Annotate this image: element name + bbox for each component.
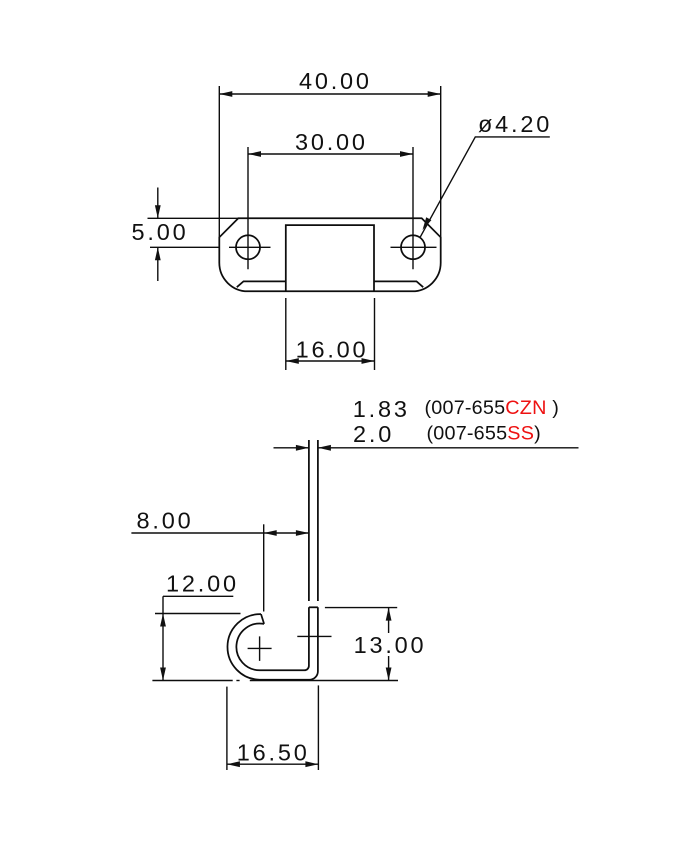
- arrow 8.00 left (points left): [264, 530, 277, 536]
- dim 16.00 extension lines: [286, 298, 375, 370]
- hook tip end cap: [261, 614, 264, 624]
- profile upper plate wall right face: [317, 440, 319, 601]
- dim 8.00 extension line: [263, 524, 265, 611]
- arrow 16.50 left: [227, 761, 240, 767]
- dim 13.00 dimension line: [388, 608, 390, 681]
- dim 8.00 dimension line: [131, 532, 309, 534]
- arrow 12.00 bottom (points down): [160, 668, 166, 681]
- arrow 40.00 right: [428, 91, 441, 97]
- right hole crosshair: [391, 147, 437, 269]
- dim 5.00 bottom extension line: [150, 246, 219, 248]
- svg-text:5.00: 5.00: [132, 219, 189, 245]
- dim 30.00 dimension line: [248, 153, 413, 155]
- arrow 5.00 bottom (points up): [155, 247, 161, 260]
- hook outer surface: leg, bend, bottom run, outer curl: [227, 607, 317, 679]
- arrow 8.00 right (points right): [296, 530, 309, 536]
- arrow 16.00 right: [362, 358, 375, 364]
- leader line for hole diameter: [420, 137, 550, 237]
- arrow 12.00 top (points up): [160, 614, 166, 627]
- arrow 16.00 left: [286, 358, 299, 364]
- arrow 16.50 right: [305, 761, 318, 767]
- hook inner surface: leg, bend, bottom run, inner curl: [236, 607, 309, 670]
- svg-text:(007-655SS): (007-655SS): [427, 423, 541, 445]
- thickness dimension line right part (leader to labels): [318, 447, 579, 449]
- arrow thickness left (points right): [296, 445, 309, 451]
- svg-text:40.00: 40.00: [299, 68, 372, 94]
- dim 12.00 dimension line: [162, 596, 164, 680]
- left hole crosshair: [229, 147, 271, 269]
- svg-text:16.00: 16.00: [296, 337, 369, 363]
- svg-text:30.00: 30.00: [295, 129, 368, 155]
- dim 16.00 dimension line: [286, 360, 375, 362]
- hook top end cap: [309, 606, 318, 608]
- plate inner bottom edge right segment: [374, 281, 423, 287]
- dim 12.00 landing line: [163, 595, 233, 597]
- white gap behind 13.00 text: [351, 633, 424, 656]
- plate inner bottom edge left segment: [237, 281, 286, 287]
- dim 40.00 extension lines: [219, 86, 440, 263]
- svg-text:12.00: 12.00: [166, 571, 239, 597]
- svg-text:1.83: 1.83: [353, 396, 410, 422]
- arrow hole leader (points down-left): [423, 217, 432, 230]
- arrow 5.00 top (points down): [155, 205, 161, 218]
- svg-text:8.00: 8.00: [137, 508, 194, 534]
- bottom extension line left segment: [152, 680, 232, 682]
- svg-text:ø4.20: ø4.20: [478, 111, 552, 137]
- dim 5.00 top extension line: [148, 217, 241, 219]
- arrow 30.00 right: [400, 151, 413, 157]
- arrow 13.00 bottom (points down): [386, 668, 392, 681]
- bottom extension line dot: [236, 680, 239, 682]
- central formed section rectangle: [286, 225, 374, 291]
- bottom extension line right segment: [250, 680, 398, 682]
- svg-text:13.00: 13.00: [354, 632, 427, 658]
- hook arc centre mark: [248, 636, 272, 661]
- plate outline (top view): [219, 218, 440, 291]
- arrow 13.00 top (points up): [386, 608, 392, 621]
- arrow 40.00 left: [219, 91, 232, 97]
- svg-text:(007-655CZN ): (007-655CZN ): [425, 397, 560, 419]
- profile upper plate wall left face: [308, 440, 310, 601]
- dim 16.50 left extension line: [226, 687, 228, 770]
- wall centre tick: [297, 635, 331, 637]
- arrow 30.00 left: [248, 151, 261, 157]
- svg-text:16.50: 16.50: [237, 740, 310, 766]
- dim 13.00 top extension line: [325, 607, 397, 609]
- dim 5.00 dimension line lower segment: [157, 247, 159, 281]
- left hole circle: [236, 235, 260, 259]
- dim 40.00 dimension line: [219, 93, 440, 95]
- dim 5.00 dimension line upper segment: [157, 188, 159, 219]
- thickness dimension line left part: [274, 447, 309, 449]
- right hole circle: [401, 235, 425, 259]
- svg-text:2.0: 2.0: [353, 421, 394, 447]
- dim 16.50 dimension line: [227, 763, 319, 765]
- dim 12.00 top extension line: [155, 613, 241, 615]
- dim 16.50 right extension line: [317, 685, 319, 770]
- arrow thickness right (points left): [318, 445, 331, 451]
